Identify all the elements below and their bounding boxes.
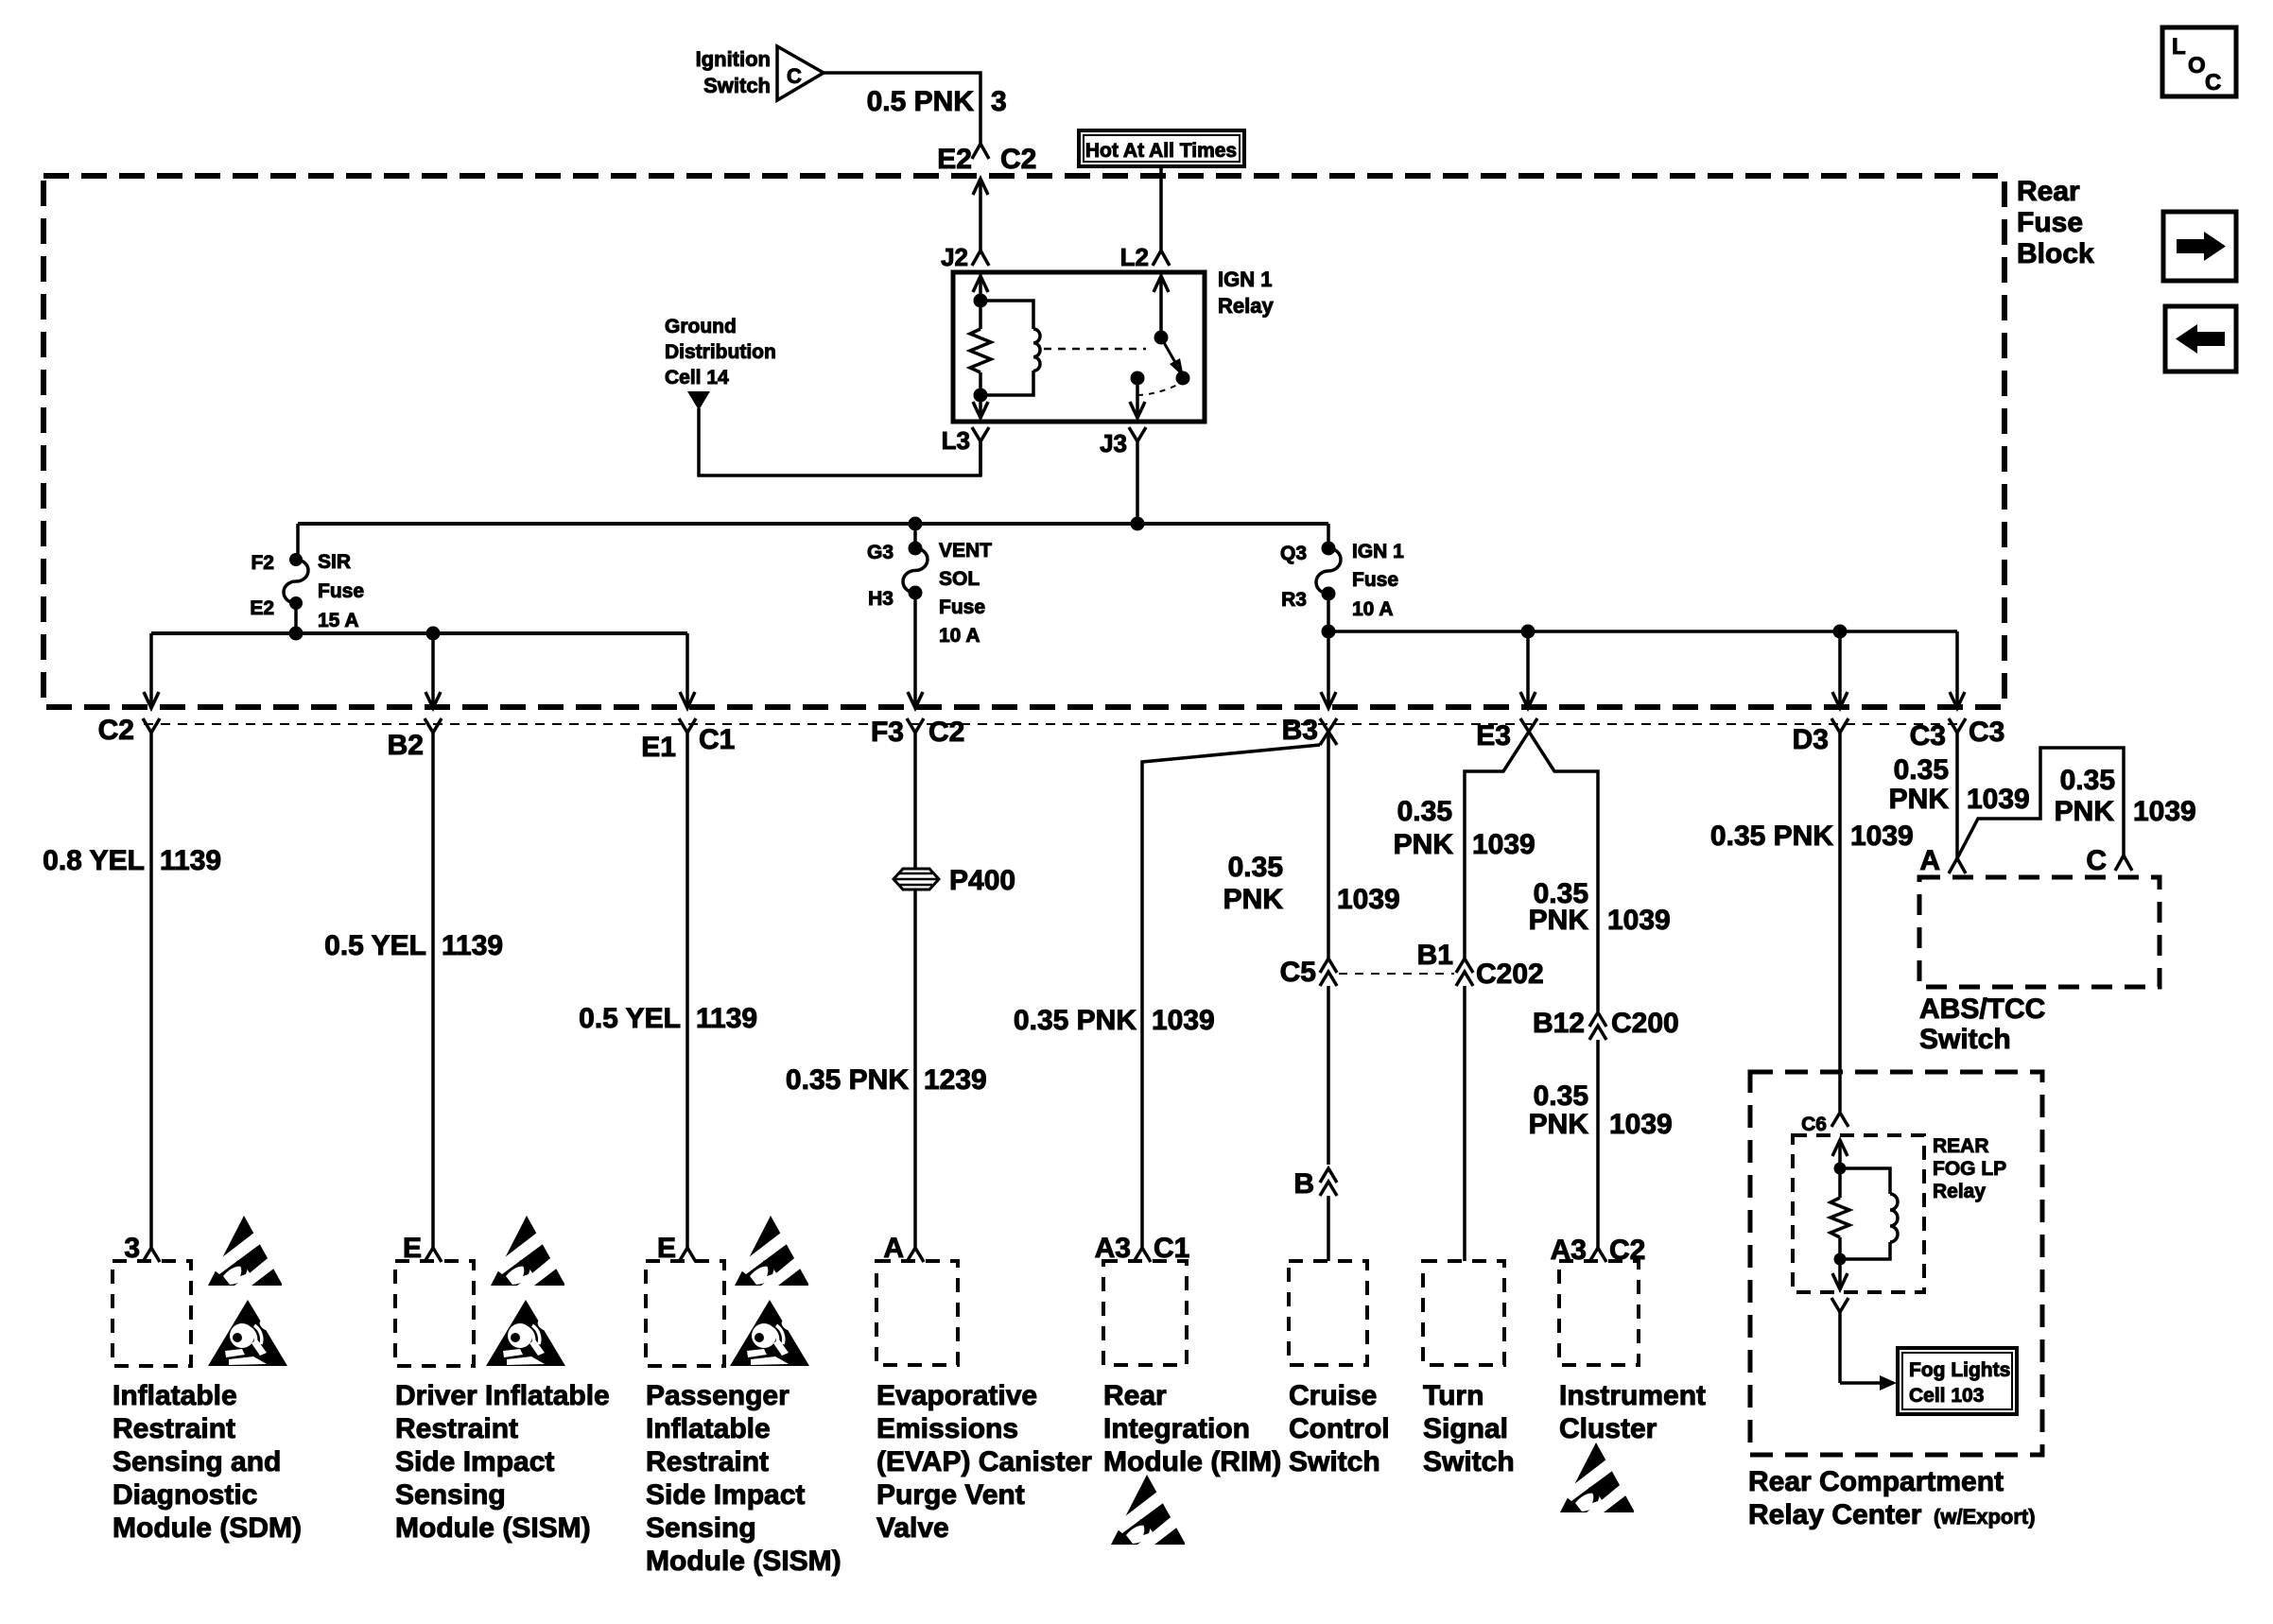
svg-text:C5: C5 [1280, 957, 1316, 988]
svg-text:Ignition: Ignition [696, 47, 771, 71]
ignition switch symbol [696, 46, 824, 100]
svg-text:10 A: 10 A [939, 625, 980, 647]
left arrow nav box [2165, 306, 2236, 371]
connector face dashed line [144, 723, 1965, 725]
svg-text:Fuse: Fuse [939, 596, 985, 618]
svg-text:1039: 1039 [1967, 784, 2030, 815]
svg-text:1139: 1139 [696, 1003, 757, 1034]
svg-text:E3: E3 [1476, 720, 1511, 752]
svg-text:D3: D3 [1793, 724, 1829, 755]
fuse SIR 15 A [250, 524, 364, 633]
svg-text:Block: Block [2017, 238, 2094, 269]
svg-text:(EVAP) Canister: (EVAP) Canister [876, 1446, 1092, 1477]
svg-text:H3: H3 [868, 588, 894, 610]
svg-text:Q3: Q3 [1280, 543, 1307, 564]
svg-text:IGN 1: IGN 1 [1352, 541, 1404, 562]
svg-text:0.5 YEL: 0.5 YEL [324, 930, 426, 961]
svg-text:Cruise: Cruise [1289, 1380, 1377, 1411]
svg-text:Inflatable: Inflatable [646, 1413, 771, 1444]
connector E3 (splits to turn signal and cluster) [1476, 718, 1537, 752]
svg-text:Fog Lights: Fog Lights [1909, 1359, 2010, 1381]
svg-text:A: A [1919, 845, 1940, 876]
svg-text:C2: C2 [1000, 144, 1036, 175]
svg-text:Switch: Switch [1289, 1446, 1380, 1477]
relay pin L3 connector [942, 426, 989, 475]
connector C202 dashed link [1339, 973, 1454, 975]
svg-text:Side Impact: Side Impact [395, 1446, 554, 1477]
svg-text:0.35: 0.35 [1534, 1080, 1588, 1112]
svg-text:0.35: 0.35 [2060, 765, 2115, 796]
svg-text:0.35 PNK: 0.35 PNK [1710, 821, 1833, 852]
svg-text:C2: C2 [98, 715, 134, 746]
svg-text:3: 3 [991, 86, 1007, 117]
svg-text:C: C [2205, 70, 2221, 95]
SIR fuse distribution wire [144, 627, 695, 709]
wire 0.5 YEL 1139 to passenger SISM [579, 749, 757, 1264]
relay coil winding [980, 301, 1040, 395]
svg-text:1039: 1039 [1850, 821, 1914, 852]
wire ignition switch to E2/C2 connector [824, 73, 980, 144]
svg-text:Fuse: Fuse [2017, 207, 2083, 238]
svg-text:Switch: Switch [1423, 1446, 1515, 1477]
ESD sensitive icon (driver SISM) [491, 1216, 564, 1286]
svg-text:PNK: PNK [1529, 1109, 1589, 1140]
svg-text:P400: P400 [949, 865, 1015, 896]
svg-text:B12: B12 [1533, 1008, 1585, 1039]
svg-text:E1: E1 [641, 732, 676, 763]
svg-text:0.35: 0.35 [1228, 852, 1283, 883]
svg-text:C202: C202 [1476, 959, 1544, 990]
svg-text:E2: E2 [250, 597, 274, 619]
wire 0.35 PNK 1239 to EVAP valve [786, 749, 987, 1264]
svg-text:(w/Export): (w/Export) [1934, 1505, 2036, 1529]
wire label 0.5 PNK 3 [867, 86, 1007, 117]
svg-text:L3: L3 [942, 426, 970, 455]
svg-text:0.5 YEL: 0.5 YEL [579, 1003, 681, 1034]
svg-text:PNK: PNK [1889, 784, 1950, 815]
module box instrument cluster [1559, 1261, 1706, 1444]
svg-text:G3: G3 [867, 542, 894, 563]
svg-text:C200: C200 [1611, 1008, 1679, 1039]
svg-text:Evaporative: Evaporative [876, 1380, 1037, 1411]
SIR airbag icon (driver SISM) [486, 1300, 565, 1366]
module box turn signal switch [1423, 1261, 1515, 1477]
svg-text:R3: R3 [1281, 589, 1307, 611]
svg-text:Ground: Ground [665, 316, 737, 337]
svg-text:Signal: Signal [1423, 1413, 1508, 1444]
module box RIM [1103, 1261, 1281, 1477]
wire B3 to cruise switch (0.35 PNK 1039) [1223, 732, 1400, 1261]
connector B3 (splits to RIM and cruise) [1282, 715, 1337, 746]
connector C3/C3 (ABS/TCC feed) [1910, 717, 2005, 752]
svg-text:Control: Control [1289, 1413, 1390, 1444]
svg-text:Relay Center: Relay Center [1748, 1499, 1922, 1530]
ground distribution symbol Cell 14 [665, 316, 776, 410]
wire B3 to RIM (0.35 PNK 1039) [1014, 745, 1320, 1264]
fuse VENT SOL 10 A [867, 540, 992, 708]
LOC reference box [2162, 27, 2236, 96]
connector B2 (driver SISM feed) [388, 718, 442, 761]
svg-text:Purge Vent: Purge Vent [876, 1479, 1025, 1511]
wire E3 to turn signal switch [1394, 745, 1544, 1261]
SIR airbag icon (passenger SISM) [730, 1300, 809, 1366]
wire E3 to instrument cluster [1529, 745, 1679, 1266]
svg-text:Sensing: Sensing [646, 1512, 756, 1544]
svg-text:0.5 PNK: 0.5 PNK [867, 86, 975, 117]
svg-text:Restraint: Restraint [113, 1413, 235, 1444]
svg-text:1139: 1139 [442, 930, 503, 961]
svg-text:Emissions: Emissions [876, 1413, 1018, 1444]
svg-text:L2: L2 [1120, 243, 1149, 271]
svg-text:Integration: Integration [1103, 1413, 1250, 1444]
svg-text:C: C [787, 64, 802, 88]
module box passenger SISM [646, 1261, 842, 1577]
wire jumper to ABS/TCC pin C [1957, 748, 2196, 876]
relay IGN 1 box [953, 268, 1274, 422]
relay actuation dashed link [1044, 348, 1146, 351]
svg-text:Distribution: Distribution [665, 341, 776, 363]
svg-text:IGN 1: IGN 1 [1218, 268, 1272, 291]
svg-text:Sensing and: Sensing and [113, 1446, 281, 1477]
svg-text:F3: F3 [871, 717, 904, 748]
module box EVAP valve [876, 1261, 1092, 1544]
svg-text:1039: 1039 [2133, 796, 2196, 827]
relay REAR FOG LP box [1793, 1135, 2006, 1292]
Rear Fuse Block dashed outline [43, 176, 2094, 707]
svg-text:B: B [1293, 1168, 1314, 1200]
svg-text:Side Impact: Side Impact [646, 1479, 805, 1511]
svg-text:Rear: Rear [1103, 1380, 1167, 1411]
ESD sensitive icon (passenger SISM) [735, 1216, 808, 1286]
right arrow nav box [2163, 212, 2236, 281]
ABS/TCC switch box [1919, 877, 2160, 1055]
relay switch contact (L2 to J3) [1130, 276, 1190, 418]
rear compartment relay center box [1748, 1072, 2042, 1530]
svg-text:1039: 1039 [1607, 905, 1671, 936]
fog relay output connector [1831, 1298, 1848, 1383]
svg-text:SIR: SIR [318, 551, 351, 573]
ground wire to L3 [699, 408, 980, 475]
grommet P400 [894, 865, 1015, 896]
svg-text:REAR: REAR [1933, 1135, 1989, 1157]
wire to fog lights cell 103 [1840, 1375, 1897, 1391]
svg-text:10 A: 10 A [1352, 598, 1394, 620]
svg-text:1139: 1139 [160, 845, 221, 876]
svg-text:Cell 103: Cell 103 [1909, 1385, 1984, 1407]
svg-text:L: L [2172, 34, 2186, 60]
svg-text:Cluster: Cluster [1559, 1413, 1657, 1444]
svg-text:0.35: 0.35 [1894, 754, 1949, 786]
svg-text:Module (SISM): Module (SISM) [646, 1546, 842, 1577]
svg-text:C1: C1 [699, 724, 735, 755]
svg-text:Module (SDM): Module (SDM) [113, 1512, 302, 1544]
module box SDM [113, 1261, 302, 1544]
svg-text:1039: 1039 [1152, 1005, 1215, 1036]
svg-text:PNK: PNK [2055, 796, 2115, 827]
svg-text:C6: C6 [1801, 1114, 1827, 1135]
svg-text:J3: J3 [1100, 429, 1127, 458]
svg-text:B1: B1 [1417, 940, 1453, 971]
svg-text:PNK: PNK [1223, 884, 1284, 915]
fog relay coil winding [1840, 1168, 1898, 1259]
connector D3 (relay center feed) [1793, 718, 1848, 755]
svg-text:Instrument: Instrument [1559, 1380, 1706, 1411]
Hot At All Times power tag [1079, 130, 1244, 166]
svg-text:C3: C3 [1969, 717, 2004, 748]
svg-text:Diagnostic: Diagnostic [113, 1479, 257, 1511]
svg-text:Cell 14: Cell 14 [665, 367, 729, 389]
svg-text:Restraint: Restraint [646, 1446, 769, 1477]
svg-text:SOL: SOL [939, 568, 980, 590]
svg-text:J2: J2 [941, 243, 968, 271]
module box cruise control switch [1289, 1261, 1390, 1477]
svg-text:Fuse: Fuse [1352, 569, 1398, 591]
fuse IGN 1 10 A [1280, 524, 1404, 708]
svg-text:Module (RIM): Module (RIM) [1103, 1446, 1281, 1477]
svg-text:ABS/TCC: ABS/TCC [1919, 993, 2045, 1025]
IGN1 fuse output bus to right [1322, 625, 1966, 709]
svg-text:C2: C2 [928, 717, 964, 748]
fog relay resistor [1831, 1198, 1849, 1237]
svg-text:B3: B3 [1282, 715, 1318, 746]
connector C2 (SDM feed) [98, 715, 160, 749]
svg-text:Switch: Switch [1919, 1024, 2011, 1055]
wire C3 to ABS/TCC switch pin A [1889, 749, 2030, 876]
svg-text:0.35 PNK: 0.35 PNK [1014, 1005, 1136, 1036]
svg-text:Switch: Switch [703, 74, 771, 97]
wire Hot At All Times to L2 [1120, 166, 1170, 271]
svg-text:C3: C3 [1910, 720, 1946, 752]
svg-text:B2: B2 [388, 730, 424, 761]
svg-text:15 A: 15 A [318, 610, 359, 631]
svg-text:Passenger: Passenger [646, 1380, 789, 1411]
svg-text:Module (SISM): Module (SISM) [395, 1512, 591, 1544]
resistor (relay suppression) [970, 329, 991, 372]
svg-text:C: C [2086, 845, 2107, 876]
svg-text:PNK: PNK [1529, 905, 1589, 936]
module box driver SISM [395, 1261, 610, 1544]
svg-text:FOG LP: FOG LP [1933, 1158, 2006, 1180]
svg-text:Restraint: Restraint [395, 1413, 518, 1444]
svg-text:Rear Compartment: Rear Compartment [1748, 1466, 2004, 1497]
svg-text:Fuse: Fuse [318, 580, 364, 602]
svg-text:F2: F2 [251, 552, 274, 574]
wire 0.5 YEL 1139 to driver SISM [324, 749, 503, 1264]
svg-text:Valve: Valve [876, 1512, 949, 1544]
svg-text:PNK: PNK [1394, 829, 1454, 860]
svg-text:Relay: Relay [1218, 294, 1274, 318]
ESD sensitive icon (SDM) [208, 1216, 282, 1286]
svg-text:1039: 1039 [1472, 829, 1536, 860]
ESD sensitive icon (instrument cluster) [1560, 1443, 1634, 1512]
svg-text:Rear: Rear [2017, 176, 2080, 207]
svg-text:1039: 1039 [1609, 1109, 1673, 1140]
ESD sensitive icon (RIM) [1111, 1475, 1185, 1545]
ignition feed bus from J3 [298, 517, 1328, 549]
relay pin J3 connector [1100, 427, 1146, 524]
svg-text:Relay: Relay [1933, 1181, 1986, 1202]
svg-text:O: O [2188, 53, 2206, 78]
SIR airbag icon (SDM) [208, 1300, 287, 1366]
svg-text:0.35: 0.35 [1397, 796, 1452, 827]
svg-text:0.8 YEL: 0.8 YEL [43, 845, 145, 876]
svg-text:Hot At All Times: Hot At All Times [1085, 140, 1237, 162]
svg-text:E2: E2 [937, 144, 972, 175]
svg-text:1239: 1239 [924, 1064, 987, 1096]
fog relay coil wire with resistor [1831, 1140, 1849, 1289]
svg-text:1039: 1039 [1337, 884, 1400, 915]
svg-text:Driver Inflatable: Driver Inflatable [395, 1380, 610, 1411]
svg-text:Sensing: Sensing [395, 1479, 506, 1511]
wire D3 to rear fog relay (0.35 PNK 1039) [1710, 749, 1914, 1135]
wire 0.8 YEL 1139 to SDM [43, 749, 221, 1264]
svg-text:0.35 PNK: 0.35 PNK [786, 1064, 909, 1096]
svg-text:Inflatable: Inflatable [113, 1380, 237, 1411]
connector E2/C2 (fuse block pass-through) [937, 144, 1036, 271]
connector E1/C1 (passenger SISM feed) [641, 718, 735, 763]
svg-text:Turn: Turn [1423, 1380, 1484, 1411]
connector F3/C2 (EVAP feed) [871, 717, 964, 749]
Fog Lights Cell 103 tag [1898, 1348, 2017, 1414]
relay coil feed wire (J2 to L3) with resistor [970, 276, 991, 418]
svg-text:VENT: VENT [939, 540, 992, 561]
